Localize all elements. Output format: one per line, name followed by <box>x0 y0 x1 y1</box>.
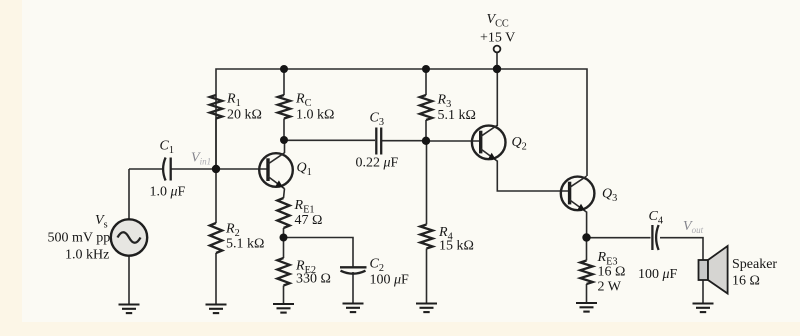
svg-text:Q3: Q3 <box>602 186 617 204</box>
svg-text:Q2: Q2 <box>512 135 527 153</box>
svg-text:1.0 μF: 1.0 μF <box>150 185 186 200</box>
svg-text:100 μF: 100 μF <box>370 272 410 287</box>
svg-text:Vs: Vs <box>95 213 108 231</box>
svg-text:1.0 kΩ: 1.0 kΩ <box>296 107 334 122</box>
svg-text:15 kΩ: 15 kΩ <box>439 239 474 254</box>
svg-text:20 kΩ: 20 kΩ <box>227 107 262 122</box>
svg-text:16 Ω: 16 Ω <box>732 273 760 288</box>
svg-text:Q1: Q1 <box>297 160 312 178</box>
svg-text:500 mV pp: 500 mV pp <box>48 231 111 246</box>
svg-text:16 Ω: 16 Ω <box>598 265 626 280</box>
svg-text:C4: C4 <box>649 209 664 227</box>
svg-text:5.1 kΩ: 5.1 kΩ <box>226 236 264 251</box>
svg-text:100 μF: 100 μF <box>638 267 678 282</box>
svg-text:VCC: VCC <box>487 12 509 30</box>
svg-text:Vout: Vout <box>683 219 704 235</box>
svg-text:330 Ω: 330 Ω <box>296 272 331 287</box>
svg-text:47 Ω: 47 Ω <box>295 213 323 228</box>
svg-text:+15 V: +15 V <box>480 31 515 46</box>
svg-text:R1: R1 <box>226 91 241 109</box>
svg-text:Speaker: Speaker <box>732 257 777 272</box>
svg-text:0.22 μF: 0.22 μF <box>356 155 399 170</box>
svg-text:5.1 kΩ: 5.1 kΩ <box>438 108 476 123</box>
svg-text:Vin1: Vin1 <box>191 151 211 167</box>
svg-text:2 W: 2 W <box>598 279 622 294</box>
svg-text:C1: C1 <box>160 139 175 157</box>
svg-text:C2: C2 <box>370 256 385 274</box>
svg-text:1.0 kHz: 1.0 kHz <box>65 247 109 262</box>
svg-text:C3: C3 <box>370 110 385 128</box>
svg-text:RC: RC <box>295 91 312 109</box>
